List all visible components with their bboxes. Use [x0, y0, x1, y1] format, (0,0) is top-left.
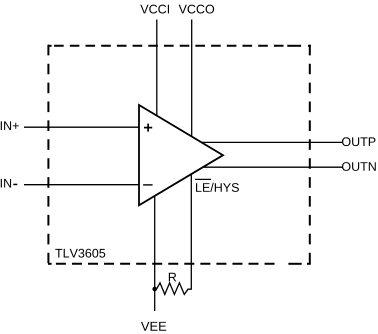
wire LE/HYS pin down to resistor [190, 175, 192, 290]
resistor R zigzag [155, 283, 192, 295]
op-amp U1 comparator triangle [139, 105, 223, 205]
overline on LE [195, 178, 211, 180]
IC boundary dashed box bottom edge [48, 263, 311, 265]
label VCCI [140, 5, 169, 14]
wire comparator bottom to VEE [154, 196, 156, 312]
wire VCCI supply [156, 20, 158, 116]
wire IN- to comparator [24, 184, 139, 186]
label OUTP [342, 137, 375, 146]
plus input marker [144, 124, 152, 132]
label LE/HYS [196, 183, 239, 192]
IC boundary dashed box top edge [48, 45, 311, 47]
wire VCCO supply [191, 20, 193, 137]
label VEE [141, 322, 166, 331]
label IN+ [1, 121, 19, 130]
wire IN+ to comparator [24, 126, 139, 128]
label OUTN [342, 162, 376, 171]
wire OUTP from comparator [202, 141, 343, 143]
IC boundary dashed box right edge [309, 45, 311, 265]
label IN- [1, 179, 11, 188]
minus input marker [143, 184, 153, 186]
label R value [169, 273, 176, 282]
label TLV3605 [55, 249, 105, 258]
IC boundary dashed box left edge [47, 45, 49, 265]
label VCCO [179, 5, 214, 14]
wire OUTN from comparator [204, 166, 343, 168]
node junction dot on VEE line [152, 287, 157, 292]
